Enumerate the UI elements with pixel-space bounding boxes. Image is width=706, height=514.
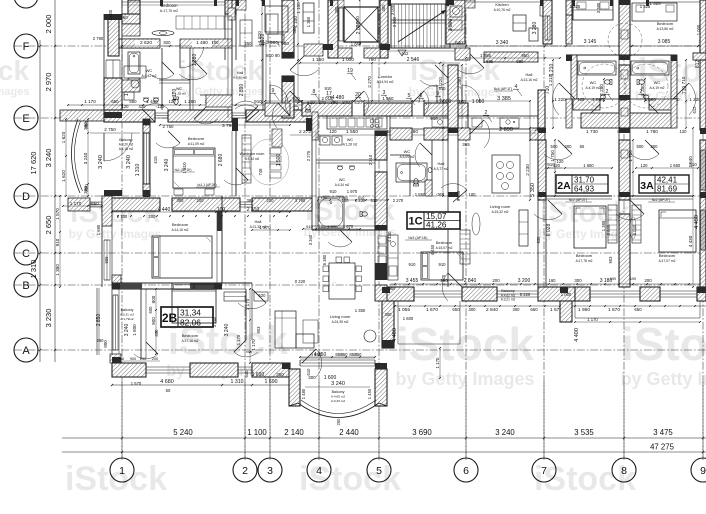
svg-text:2 790: 2 790: [93, 36, 104, 41]
1C shelf: [519, 210, 528, 246]
svg-text:1 350: 1 350: [355, 308, 366, 313]
top-left wall stubs: [122, 14, 140, 24]
wc upper-left walls: [161, 48, 163, 110]
dim line above E: [68, 104, 310, 106]
svg-text:1: 1: [119, 465, 125, 477]
svg-text:2 275: 2 275: [306, 150, 311, 161]
svg-text:385: 385: [177, 198, 185, 203]
svg-text:910: 910: [292, 96, 300, 101]
bedroom top-right bed: [573, 0, 613, 20]
svg-text:3 240: 3 240: [124, 324, 130, 337]
svg-text:120: 120: [122, 104, 130, 109]
svg-text:2 700: 2 700: [117, 214, 128, 219]
vchain x262: [261, 0, 263, 103]
svg-text:Bedroom: Bedroom: [188, 136, 205, 141]
svg-text:4 400: 4 400: [574, 328, 580, 342]
svg-text:1 750: 1 750: [550, 150, 555, 162]
1C plant: [472, 213, 480, 235]
grid column lines 1-9: [121, 0, 123, 460]
dim right low2: [575, 321, 700, 323]
vchain x530: [529, 101, 531, 200]
svg-text:5 240: 5 240: [173, 428, 193, 437]
party wall 1C-2A: [538, 90, 545, 128]
svg-text:1 220: 1 220: [554, 97, 566, 102]
svg-text:250: 250: [140, 357, 146, 361]
svg-text:WC: WC: [590, 80, 597, 85]
tick scatter: [394, 283, 396, 285]
vchain x298: [297, 0, 299, 103]
svg-text:2 750: 2 750: [163, 124, 175, 129]
svg-text:3 340: 3 340: [496, 40, 509, 46]
corridor south band: [265, 103, 290, 116]
dim row y44 mid: [440, 45, 706, 47]
svg-text:42,41: 42,41: [657, 176, 678, 185]
svg-text:1 170: 1 170: [84, 99, 96, 104]
svg-text:2 310: 2 310: [368, 154, 373, 165]
counter east of wall: [388, 235, 398, 280]
svg-text:1 000: 1 000: [439, 99, 452, 105]
svg-text:380: 380: [381, 4, 386, 12]
svg-text:1 570: 1 570: [55, 208, 60, 220]
svg-text:...: ...: [332, 279, 335, 284]
svg-text:380: 380: [83, 186, 88, 194]
svg-text:A:5,34 m2: A:5,34 m2: [245, 157, 260, 161]
svg-text:500: 500: [551, 144, 559, 149]
svg-text:Kitchen: Kitchen: [495, 2, 508, 7]
svg-text:Bedroom: Bedroom: [182, 333, 199, 338]
svg-text:1 325: 1 325: [570, 4, 581, 9]
wc doors right big: [552, 83, 559, 115]
vchain x156: [155, 289, 157, 354]
grid row marker F: [14, 34, 38, 58]
bottom dimension line: [62, 437, 706, 439]
3A label box: [639, 175, 689, 193]
svg-text:3 240: 3 240: [212, 316, 217, 327]
svg-text:A:1,28 m2: A:1,28 m2: [343, 143, 358, 147]
grid column marker 3: [258, 458, 282, 482]
2B bottom band: [112, 363, 146, 377]
wall right of stairs: [446, 0, 465, 44]
svg-text:910: 910: [254, 99, 262, 104]
svg-text:300: 300: [385, 312, 393, 317]
svg-text:1 170: 1 170: [435, 357, 440, 369]
door 2A room: [534, 214, 562, 220]
corridor big doors: [419, 85, 437, 103]
svg-text:A:14,94 m2: A:14,94 m2: [377, 80, 394, 84]
svg-text:600: 600: [148, 306, 153, 314]
grid row marker B: [14, 273, 38, 297]
3A closet: [632, 205, 641, 243]
svg-text:380: 380: [83, 122, 88, 130]
svg-text:iStock: iStock: [621, 318, 706, 370]
svg-text:1 570: 1 570: [131, 381, 142, 386]
svg-text:Hall: Hall: [438, 161, 445, 166]
svg-text:1 325: 1 325: [640, 4, 651, 9]
svg-text:900: 900: [103, 340, 108, 348]
1C balcony door: [442, 273, 448, 301]
dashed circle wc right: [624, 64, 668, 108]
grid column marker 6: [454, 458, 478, 482]
svg-text:№5 (AP.1Б): №5 (AP.1Б): [409, 236, 428, 240]
svg-text:A:1,79m2: A:1,79m2: [120, 317, 134, 321]
svg-text:100: 100: [217, 207, 226, 213]
svg-text:3 200: 3 200: [518, 278, 531, 284]
svg-text:A:4,19 m2: A:4,19 m2: [649, 86, 664, 90]
svg-text:2 270: 2 270: [393, 198, 404, 203]
svg-text:Bedroom: Bedroom: [161, 3, 179, 8]
svg-text:1 550: 1 550: [346, 129, 358, 135]
corridor west band piece: [304, 44, 323, 56]
svg-text:950: 950: [521, 53, 529, 58]
tub 2A: [578, 61, 616, 75]
svg-text:by Getty Images: by Getty Images: [539, 227, 632, 241]
svg-text:1 660: 1 660: [670, 163, 681, 168]
midtop room shelves: [240, 20, 252, 46]
svg-text:1 220: 1 220: [689, 97, 701, 102]
svg-text:1 970: 1 970: [343, 224, 354, 229]
svg-text:510: 510: [307, 100, 315, 105]
svg-text:C: C: [22, 248, 30, 260]
2B wall x141: [140, 289, 142, 359]
svg-text:748: 748: [258, 168, 263, 176]
svg-text:WC: WC: [347, 138, 354, 142]
vchain x604: [603, 79, 605, 101]
hchain y230: [252, 229, 290, 231]
svg-text:Bedroom: Bedroom: [576, 253, 593, 258]
balcony bay left: [71, 119, 80, 193]
svg-text:4 400: 4 400: [392, 328, 398, 342]
2B bottom dims: [112, 384, 290, 386]
svg-text:A:15,07 m2: A:15,07 m2: [436, 246, 453, 250]
svg-text:-360: -360: [436, 192, 445, 197]
svg-text:A:24,35 m2: A:24,35 m2: [332, 320, 349, 324]
svg-text:3 790: 3 790: [295, 198, 306, 203]
svg-text:by Getty Images: by Getty Images: [0, 86, 29, 98]
svg-text:5 220: 5 220: [520, 292, 531, 297]
svg-text:910: 910: [325, 86, 333, 91]
svg-text:9: 9: [700, 465, 706, 477]
svg-text:5 380: 5 380: [322, 254, 327, 265]
grid column marker 5: [367, 458, 391, 482]
dashed circle shaft top: [608, 23, 642, 57]
1C kitchen counter: [468, 116, 538, 129]
grid column marker 9: [691, 458, 706, 482]
svg-text:190: 190: [630, 277, 636, 281]
svg-text:300: 300: [574, 278, 582, 283]
svg-text:1 970: 1 970: [347, 189, 358, 194]
svg-text:1 000: 1 000: [342, 57, 354, 63]
svg-text:Wardrobe room: Wardrobe room: [240, 152, 265, 156]
dim 2620 wall: [135, 40, 157, 47]
svg-text:1 860: 1 860: [592, 97, 604, 102]
svg-text:1 690: 1 690: [252, 372, 265, 378]
svg-text:650: 650: [634, 307, 642, 312]
svg-text:900: 900: [151, 317, 156, 325]
svg-text:5: 5: [376, 465, 382, 477]
hall band y55: [455, 48, 470, 60]
svg-text:200: 200: [259, 41, 267, 46]
wall x566 entry: [566, 99, 572, 128]
svg-text:910: 910: [330, 189, 338, 194]
grid row lines A-F: [14, 45, 706, 47]
left exterior wall upper: [108, 17, 119, 56]
svg-text:415: 415: [153, 156, 158, 164]
svg-text:№2 (AP.2Г): №2 (AP.2Г): [652, 198, 671, 202]
svg-text:1 100: 1 100: [293, 16, 298, 28]
svg-text:2 890: 2 890: [239, 84, 245, 97]
svg-text:2 750: 2 750: [104, 127, 116, 132]
vchain x686: [685, 60, 687, 128]
svg-text:A:3,77 m2: A:3,77 m2: [433, 167, 448, 171]
2B bed2: [172, 283, 216, 323]
1C walls interior: [390, 154, 410, 156]
svg-text:6 028: 6 028: [546, 224, 552, 237]
svg-text:820: 820: [164, 40, 172, 45]
svg-text:Balcony: Balcony: [501, 289, 515, 293]
svg-text:Corridor: Corridor: [378, 74, 393, 79]
svg-text:510: 510: [354, 100, 362, 105]
svg-text:50: 50: [166, 388, 171, 393]
shaft boxes party wall: [621, 30, 628, 39]
upper wall y40 left: [119, 38, 160, 40]
svg-text:1 100: 1 100: [296, 2, 301, 14]
svg-text:3: 3: [267, 465, 273, 477]
svg-text:A:5,09 m2: A:5,09 m2: [399, 155, 414, 159]
svg-text:300: 300: [651, 144, 659, 149]
svg-text:910: 910: [439, 86, 447, 91]
svg-text:1 260: 1 260: [184, 99, 196, 104]
svg-text:1 000: 1 000: [108, 9, 113, 20]
elevator top hatch: [338, 0, 344, 7]
grid column marker 7: [532, 458, 556, 482]
total dim line: [62, 451, 706, 453]
svg-text:№2 (AP.2Г): №2 (AP.2Г): [569, 198, 588, 202]
right band y113: [581, 113, 619, 128]
grid row marker A: [14, 338, 38, 362]
row E band left segB: [104, 110, 155, 122]
svg-text:2 280: 2 280: [599, 84, 604, 96]
svg-text:380: 380: [334, 6, 339, 14]
svg-text:250: 250: [245, 41, 253, 46]
svg-text:905: 905: [104, 256, 109, 264]
svg-text:100: 100: [469, 192, 477, 197]
svg-text:2 680: 2 680: [218, 154, 224, 167]
stair landing mark: [398, 50, 406, 56]
svg-text:47 275: 47 275: [650, 443, 675, 452]
svg-text:iStock: iStock: [299, 460, 401, 498]
svg-text:Living room: Living room: [330, 314, 351, 319]
grid row marker C: [14, 241, 38, 265]
top right bed2: [632, 3, 677, 21]
svg-text:A:17,16 m2: A:17,16 m2: [182, 339, 199, 343]
svg-text:1 360: 1 360: [306, 16, 311, 27]
kitchen 1C appliances: [513, 15, 526, 31]
row D band: [68, 198, 90, 211]
svg-text:610: 610: [306, 368, 311, 376]
svg-text:E: E: [22, 113, 29, 125]
svg-text:Living room: Living room: [490, 204, 511, 209]
svg-text:1 480: 1 480: [301, 388, 306, 399]
door E150: [234, 101, 258, 106]
hchain y206 left: [63, 205, 102, 207]
balcony right stub1: [382, 301, 394, 348]
2B east wall: [375, 285, 387, 301]
svg-text:800: 800: [151, 295, 156, 303]
svg-text:4 430: 4 430: [688, 235, 693, 247]
dim 1480 top: [192, 40, 212, 47]
svg-text:1 170: 1 170: [441, 274, 446, 285]
svg-text:903: 903: [256, 326, 261, 334]
svg-text:2 280: 2 280: [457, 77, 462, 89]
svg-text:№1.1 (AP.2K): №1.1 (AP.2K): [197, 183, 216, 187]
svg-text:930: 930: [536, 236, 541, 244]
washbasin corr: [293, 106, 299, 110]
svg-text:WC: WC: [339, 178, 346, 182]
svg-text:910: 910: [306, 224, 313, 229]
door wc2: [194, 119, 218, 124]
party wall 2A-3A: [619, 0, 630, 55]
svg-text:1 970: 1 970: [327, 224, 338, 229]
svg-text:A:5,90 m2: A:5,90 m2: [233, 76, 247, 80]
2B balcony wall: [112, 275, 121, 288]
svg-text:3 455: 3 455: [406, 278, 419, 284]
vchain x443: [442, 65, 444, 196]
svg-text:1 660: 1 660: [583, 163, 594, 168]
svg-text:31,70: 31,70: [574, 176, 595, 185]
grid row marker E: [14, 106, 38, 130]
top stub x465: [465, 0, 475, 8]
svg-text:200: 200: [267, 198, 275, 203]
dim 1170 mid: [439, 348, 441, 378]
wc inner wall: [200, 94, 232, 96]
svg-text:2 310: 2 310: [247, 207, 260, 213]
svg-text:250: 250: [336, 418, 341, 426]
door 2A entry: [544, 154, 572, 160]
svg-text:iStock: iStock: [65, 460, 167, 498]
svg-text:903: 903: [608, 256, 613, 264]
svg-text:A:10,76 m2: A:10,76 m2: [494, 8, 511, 12]
2A west wall: [566, 0, 572, 15]
svg-text:800: 800: [154, 329, 159, 337]
2B dining: [329, 263, 355, 299]
svg-text:4 450: 4 450: [430, 244, 435, 255]
svg-text:1 230: 1 230: [338, 195, 349, 200]
svg-text:64,93: 64,93: [574, 185, 595, 194]
svg-text:D: D: [22, 191, 30, 203]
window lines top edge: [122, 1, 225, 3]
svg-text:1 370: 1 370: [259, 225, 271, 230]
svg-text:Hall: Hall: [237, 71, 244, 75]
hchain y356 bay: [300, 356, 375, 358]
svg-text:A:4,34 m2: A:4,34 m2: [335, 183, 350, 187]
wc small mid: [311, 131, 313, 230]
svg-text:Balcony: Balcony: [121, 308, 134, 312]
svg-text:iStock: iStock: [0, 55, 29, 86]
svg-text:3 280: 3 280: [532, 22, 538, 35]
svg-text:2 140: 2 140: [284, 428, 304, 437]
svg-text:41,26: 41,26: [426, 221, 447, 230]
wc small mid fixtures: [320, 136, 330, 145]
bay door: [316, 349, 322, 377]
svg-text:A:17,78 m2: A:17,78 m2: [576, 259, 593, 263]
svg-text:2 280: 2 280: [640, 84, 645, 96]
svg-text:660: 660: [530, 307, 538, 312]
top stub x236: [236, 0, 246, 10]
svg-text:4 440: 4 440: [158, 207, 171, 213]
2B closet hall: [224, 292, 246, 301]
svg-text:3 300: 3 300: [448, 19, 454, 32]
grid row marker D: [14, 184, 38, 208]
bay east wall: [375, 369, 387, 406]
svg-text:520: 520: [259, 293, 267, 298]
wall top mid1: [225, 0, 236, 14]
toilets right: [605, 79, 612, 84]
below-elevator band: [338, 48, 352, 58]
svg-text:81,69: 81,69: [657, 185, 678, 194]
svg-text:1 730: 1 730: [586, 129, 598, 134]
svg-text:A:15,32 m2: A:15,32 m2: [492, 210, 509, 214]
door arcs 1C top: [456, 68, 484, 74]
svg-text:5 350: 5 350: [530, 183, 536, 197]
1C band y128: [390, 128, 412, 140]
svg-text:-120: -120: [156, 104, 165, 109]
svg-text:by Getty Images: by Getty Images: [620, 369, 706, 389]
grid column marker 4: [307, 458, 331, 482]
hchain y101 corr: [265, 100, 462, 102]
vchain x645: [644, 79, 646, 101]
svg-text:3 180: 3 180: [600, 278, 613, 284]
svg-text:650: 650: [111, 99, 119, 104]
svg-text:260: 260: [97, 338, 105, 343]
svg-text:200: 200: [644, 278, 652, 283]
room left of elevator: [265, 6, 288, 32]
svg-text:510: 510: [358, 195, 365, 200]
right top bathrooms walls: [566, 54, 619, 56]
corridor west wall: [282, 0, 294, 58]
svg-text:2 890: 2 890: [499, 127, 513, 133]
svg-text:810 90: 810 90: [266, 53, 280, 58]
right-bottom band: [382, 287, 414, 301]
2B wall y283: [112, 282, 222, 284]
svg-text:200: 200: [197, 198, 205, 203]
ceiling fan: [152, 30, 174, 35]
wc mid dim chains: [303, 228, 360, 230]
svg-text:1C: 1C: [408, 216, 422, 228]
2A bedroom north wall: [546, 195, 612, 197]
kitchen hatch x312: [312, 112, 318, 140]
svg-text:A:4,65 m2: A:4,65 m2: [331, 395, 345, 399]
top right step wall: [543, 0, 552, 44]
watermark row4: [65, 460, 167, 498]
2A label box: [556, 175, 608, 193]
vchain x462: [461, 65, 463, 128]
svg-text:100: 100: [212, 40, 220, 45]
bay window band: [300, 359, 375, 361]
svg-text:1 480: 1 480: [196, 40, 208, 45]
svg-text:1 885: 1 885: [480, 53, 492, 58]
dims below stairs: [300, 62, 460, 64]
elevator shaft: [328, 0, 338, 58]
svg-text:A:3,31 m2: A:3,31 m2: [120, 313, 134, 317]
2B balcony rail: [96, 288, 98, 355]
2B entry door: [238, 303, 266, 309]
svg-text:1 000: 1 000: [696, 24, 701, 35]
svg-text:300: 300: [513, 307, 521, 312]
2A closet: [608, 205, 617, 243]
svg-text:2 230: 2 230: [525, 164, 530, 176]
svg-text:300: 300: [565, 144, 573, 149]
svg-text:160: 160: [549, 278, 557, 283]
